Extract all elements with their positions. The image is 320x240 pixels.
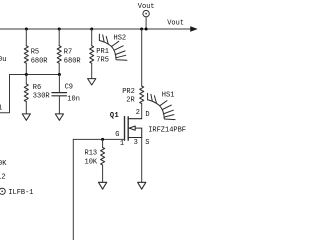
svg-text:10n: 10n [67,95,80,103]
svg-text:ILFB-1: ILFB-1 [8,189,33,197]
ground (PR1) [88,79,96,85]
wire lower bus [10,74,60,76]
svg-text:100u: 100u [0,56,6,64]
wire gate lead [73,138,124,140]
potentiometer PR1 [90,29,94,79]
svg-text:PR2: PR2 [122,88,135,96]
resistor R7 [57,29,61,75]
svg-text:680R: 680R [31,57,49,65]
junction dot G [58,73,61,76]
svg-text:3: 3 [134,139,138,147]
svg-text:Vout: Vout [167,20,184,28]
svg-text:12: 12 [0,173,6,181]
potentiometer PR2 [140,29,144,119]
svg-text:D: D [145,111,149,119]
ground (C9) [55,114,63,120]
junction dot C [90,28,93,31]
ground (R13) [99,182,107,189]
svg-text:R5: R5 [31,49,39,57]
svg-text:Vout: Vout [138,3,155,11]
svg-text:1: 1 [0,104,2,112]
svg-text:Q1: Q1 [110,112,119,120]
svg-text:C9: C9 [65,83,73,91]
heatsink HS1 [148,93,176,119]
wire source lead [141,138,143,183]
svg-text:R6: R6 [33,84,41,92]
svg-text:IRFZ14PBF: IRFZ14PBF [148,127,186,135]
junction dot B [58,28,61,31]
capacitor C9 [52,75,67,114]
svg-text:1: 1 [120,140,124,148]
svg-text:330R: 330R [33,92,51,100]
svg-text:2R: 2R [126,96,135,104]
svg-text:PR1: PR1 [96,48,109,56]
svg-text:680R: 680R [64,57,82,65]
resistor R13 [101,139,105,182]
svg-text:R13: R13 [85,149,98,157]
svg-text:HS2: HS2 [114,35,127,43]
svg-text:7R5: 7R5 [96,56,109,64]
svg-text:G: G [115,131,119,139]
wire left drop [72,139,74,240]
svg-text:HS1: HS1 [162,92,175,100]
svg-text:S: S [145,139,149,147]
junction dot E [145,28,148,31]
transistor Q1 (N-MOSFET) [125,117,129,141]
terminal ILFB-1 [0,188,5,194]
junction dot F [25,73,28,76]
resistor R6 [24,75,28,114]
wire terminal stem [145,17,147,29]
ground (source) [138,182,146,189]
svg-text:R7: R7 [64,49,72,57]
heatsink HS2 [99,34,127,60]
junction dot H [101,138,104,141]
junction dot D [140,28,143,31]
svg-text:2: 2 [136,109,140,117]
wire left L [0,75,10,113]
resistor R5 [24,29,28,75]
junction dot A [25,28,28,31]
ground (R6) [22,114,30,120]
node Vout arrow [191,27,198,32]
svg-text:10K: 10K [0,160,7,168]
wire top rail [0,28,192,30]
terminal Vout [143,10,149,16]
svg-text:10K: 10K [85,159,98,167]
